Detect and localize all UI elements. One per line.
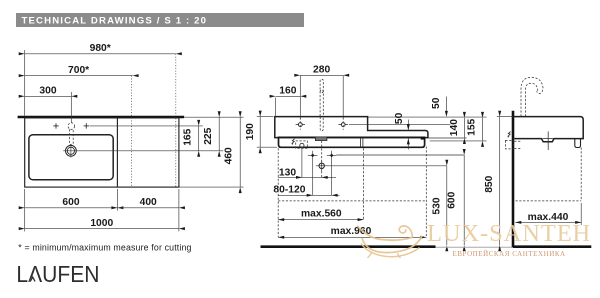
plan drain — [66, 144, 77, 157]
strip tab — [421, 137, 425, 139]
svg-text:1000: 1000 — [90, 218, 113, 229]
connector to 600 — [336, 154, 464, 156]
connector to 530 — [328, 165, 447, 167]
watermark ornament — [357, 226, 422, 259]
svg-text:460: 460 — [224, 147, 235, 164]
drain symbol front — [316, 160, 328, 171]
floor line — [261, 245, 592, 248]
fixing bolt right — [339, 117, 348, 129]
header bar — [16, 13, 304, 27]
dim 160 — [270, 86, 307, 98]
plan bottom-right extension — [180, 186, 244, 188]
dim 600 — [19, 197, 124, 209]
dim 530 — [431, 160, 448, 251]
plan extension lines top — [25, 50, 72, 123]
dim max.560 — [278, 208, 363, 221]
svg-text:130: 130 — [279, 167, 296, 178]
svg-text:600: 600 — [62, 197, 79, 208]
side wall — [512, 111, 515, 248]
dim 280 extension lines — [300, 75, 343, 116]
strip joint lines — [360, 138, 363, 148]
trap drop line — [301, 148, 303, 177]
bolt axis extension — [349, 123, 450, 125]
svg-text:max.560: max.560 — [301, 208, 342, 219]
plan cross marks — [53, 123, 89, 128]
svg-text:400: 400 — [140, 197, 157, 208]
wall connection squiggle front — [292, 139, 295, 145]
svg-text:LΛUFEN: LΛUFEN — [16, 261, 99, 287]
plan dotted cut lines — [132, 54, 176, 187]
dim 80-120 — [273, 185, 339, 197]
faucet front dashed — [320, 79, 323, 131]
dim 1000 — [19, 218, 185, 230]
side front leg — [575, 139, 581, 148]
dim 190 extensions — [257, 117, 277, 148]
dim 850 — [484, 111, 501, 252]
svg-text:600: 600 — [447, 191, 458, 208]
wall dashed connection box — [505, 141, 521, 149]
faucet gooseneck dashed — [521, 77, 543, 116]
svg-text:LUX-SANTEH: LUX-SANTEH — [427, 220, 591, 247]
dim 50 upper — [431, 97, 448, 117]
svg-text:ЕВРОПЕЙСКАЯ САНТЕХНИКА: ЕВРОПЕЙСКАЯ САНТЕХНИКА — [453, 250, 566, 258]
dim 600 vertical — [447, 149, 466, 251]
svg-text:50: 50 — [431, 97, 442, 109]
dim 130 — [278, 167, 336, 179]
dim 280 — [294, 65, 349, 77]
dim max.440 — [515, 212, 581, 224]
front bottom strip — [279, 137, 425, 147]
svg-text:max.960: max.960 — [331, 226, 372, 237]
svg-text:50: 50 — [394, 112, 405, 124]
plan outer rect — [25, 118, 179, 187]
svg-text:* = minimum/maximum measure fo: * = minimum/maximum measure for cutting — [18, 242, 191, 252]
svg-text:280: 280 — [313, 65, 330, 76]
bottle trap dashed box — [296, 141, 308, 148]
side basin profile — [512, 117, 584, 142]
watermark LUX-SANTEH — [427, 220, 591, 247]
side under zone dashed — [516, 148, 582, 201]
supply drop lines — [313, 160, 332, 195]
svg-text:980*: 980* — [90, 43, 111, 54]
dim 400 — [111, 197, 184, 209]
dim 700* — [19, 65, 139, 77]
front body outline — [275, 117, 428, 138]
dim 140 — [449, 112, 466, 144]
svg-text:300: 300 — [39, 86, 56, 97]
top level extension line — [368, 116, 486, 118]
water supply marker right — [327, 151, 337, 160]
LAUFEN logo — [16, 261, 99, 287]
side drain cross — [543, 131, 554, 150]
deck extension to 850 — [497, 116, 512, 118]
svg-text:530: 530 — [431, 197, 442, 214]
dim 300 — [19, 86, 78, 98]
svg-text:190: 190 — [245, 123, 256, 140]
footnote — [18, 242, 191, 252]
plan inner basin — [29, 135, 113, 180]
svg-text:155: 155 — [466, 118, 477, 135]
shelf bottom extension — [428, 137, 466, 139]
water supply marker left — [308, 151, 318, 160]
dim 190 — [245, 111, 262, 154]
watermark small text — [453, 250, 566, 258]
lowest point extension — [430, 140, 487, 142]
drain axis line — [63, 150, 223, 152]
dim 50 middle — [394, 112, 410, 149]
svg-text:225: 225 — [203, 127, 214, 144]
wall connection squiggle side — [508, 132, 511, 138]
svg-text:850: 850 — [484, 175, 495, 192]
max440 right extension — [580, 203, 582, 225]
dim 460 — [224, 111, 242, 193]
dim 155 — [466, 112, 484, 147]
drain flange under deck — [315, 137, 327, 141]
fixing bolt left — [296, 117, 305, 129]
installation zone dashed — [278, 147, 426, 238]
plan bottom extension lines — [25, 189, 179, 231]
drain axis dashed front — [321, 141, 323, 178]
dim 225 — [203, 111, 221, 157]
svg-text:165: 165 — [183, 128, 194, 145]
wall end extension — [185, 116, 244, 118]
svg-text:700*: 700* — [68, 65, 89, 76]
svg-text:140: 140 — [449, 119, 460, 136]
dim 160 extension — [275, 98, 277, 116]
dim 980* — [19, 43, 182, 55]
dim max.960 — [278, 226, 426, 239]
faucet axis line — [90, 125, 203, 127]
plan faucet hole dashed — [68, 123, 75, 145]
svg-text:TECHNICAL DRAWINGS / S 1 : 20: TECHNICAL DRAWINGS / S 1 : 20 — [22, 16, 208, 27]
svg-text:160: 160 — [279, 86, 296, 97]
dim 165 — [183, 120, 201, 157]
plan view wall bar — [18, 116, 185, 119]
